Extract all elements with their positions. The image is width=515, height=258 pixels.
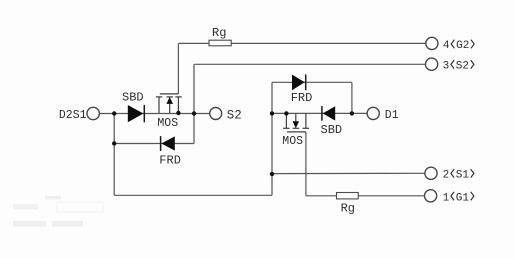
transistor MOS (right MOSFET, mirrored) <box>283 113 309 131</box>
svg-text:2: 2 <box>443 170 450 182</box>
diode FRD (left freewheel, pointing left) <box>159 136 181 168</box>
svg-text:Rg: Rg <box>341 201 355 215</box>
svg-text:4: 4 <box>443 40 450 52</box>
wire: main left bus D2S1 to S2 <box>100 113 210 115</box>
wire: right MOS gate lead vertical <box>305 132 307 196</box>
transistor MOS (left MOSFET) <box>156 94 182 114</box>
terminal 1(G1) <box>425 190 474 205</box>
terminal D2S1 <box>59 107 100 122</box>
svg-text:1: 1 <box>443 192 450 204</box>
node: S2 riser on bus <box>192 111 196 115</box>
wire: vertical drop from D2S1 bus to FRD branch and bottom bus <box>113 114 115 196</box>
diode SBD (left schottky, inline on D2S1 bus) <box>122 91 144 123</box>
terminal 3(S2) <box>426 58 474 73</box>
wire: gate lead to bottom Rg <box>306 195 337 197</box>
junction dots <box>112 111 354 176</box>
wire: gate lead to top Rg <box>178 42 209 44</box>
wire: S2 node vertical riser x=194 <box>193 64 195 143</box>
svg-text:D2S1: D2S1 <box>59 109 87 122</box>
svg-text:FRD: FRD <box>291 91 313 105</box>
svg-text:SBD: SBD <box>321 123 343 137</box>
node: D2S1 bus / FRD-left tap <box>112 111 116 115</box>
node: common vertical on D1 bus <box>270 111 274 115</box>
wire: bottom bus left section <box>114 194 272 196</box>
watermark faint text <box>13 196 103 227</box>
wire: D1 bus horizontal <box>272 112 367 114</box>
wire: 3(S2) horizontal run <box>194 63 426 65</box>
wire: common vertical x=272 <box>271 82 273 195</box>
wire: right FRD branch right vertical <box>351 82 353 113</box>
svg-text:FRD: FRD <box>159 154 181 168</box>
wire: top Rg to 4(G2) <box>231 42 426 44</box>
node: FRD-left / bottom drop <box>112 141 116 145</box>
wire: left MOS gate lead vertical <box>177 43 179 94</box>
terminal 4(G2) <box>426 37 474 52</box>
wire: right FRD branch horizontal <box>272 81 352 83</box>
svg-text:SBD: SBD <box>122 91 144 105</box>
svg-text:MOS: MOS <box>157 117 178 130</box>
svg-text:S2: S2 <box>456 61 469 73</box>
diode SBD (right schottky, pointing left) <box>321 106 343 137</box>
svg-text:G2: G2 <box>456 40 469 52</box>
resistor Rg (bottom, gate of MOS1) <box>337 193 359 199</box>
wire: bottom Rg to 1(G1) <box>358 195 424 197</box>
svg-text:S2: S2 <box>227 108 242 122</box>
node: MOS-left source stub <box>176 111 180 115</box>
svg-text:D1: D1 <box>385 109 399 122</box>
terminal D1 <box>367 107 399 122</box>
wire: left FRD branch horizontal <box>114 143 194 145</box>
svg-text:MOS: MOS <box>282 135 303 148</box>
svg-text:3: 3 <box>443 61 450 73</box>
terminal 2(S1) <box>425 167 474 181</box>
terminal S2 <box>210 108 242 123</box>
diode FRD (right freewheel, pointing right) <box>291 74 313 104</box>
svg-text:Rg: Rg <box>212 26 226 40</box>
node: FRD-right cathode on D1 bus <box>350 111 354 115</box>
node: MOS-right left stub on D1 bus <box>284 111 288 115</box>
resistor Rg (top, gate of MOS2) <box>209 40 231 46</box>
svg-text:S1: S1 <box>456 170 470 182</box>
wire: 2(S1) horizontal run <box>272 172 425 174</box>
svg-text:G1: G1 <box>456 192 470 204</box>
node: common vertical on 2(S1) wire <box>270 172 274 176</box>
